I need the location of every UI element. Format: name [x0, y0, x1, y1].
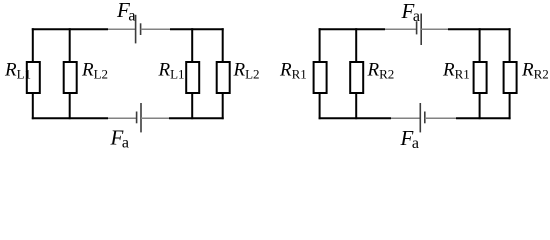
resistor RR2 (right edge of right circuit) — [504, 28, 517, 119]
wire: right circuit top-right horizontal segment — [448, 28, 511, 30]
wire: left circuit top-right horizontal segment — [170, 28, 224, 30]
resistor RR1 (left edge of right circuit) — [314, 28, 327, 119]
label Fa (top of right circuit) — [401, 0, 420, 25]
label RR1 (first) — [279, 60, 307, 82]
wire: right circuit top-left horizontal segment — [319, 28, 385, 30]
wire: left circuit top-left horizontal segment — [32, 28, 108, 30]
svg-text:RL2: RL2 — [233, 60, 260, 82]
svg-text:RR2: RR2 — [521, 60, 549, 82]
label RL1 (third) — [158, 60, 185, 82]
label RL2 (fourth) — [233, 60, 260, 82]
resistor RL1 (third branch of left circuit) — [186, 28, 199, 119]
wire: right circuit bottom-right horizontal segment — [456, 117, 511, 119]
label Fa (top of left circuit) — [116, 0, 135, 24]
label RL2 (second) — [81, 60, 108, 82]
resistor RL2 (right edge of left circuit) — [217, 28, 230, 119]
svg-text:RL1: RL1 — [158, 60, 185, 82]
svg-text:RR2: RR2 — [367, 60, 395, 82]
battery Fa (bottom of left circuit) — [108, 103, 169, 132]
svg-text:Fa: Fa — [116, 0, 135, 24]
resistor RR1 (third branch of right circuit) — [474, 28, 487, 119]
svg-text:RR1: RR1 — [442, 60, 470, 82]
label RR2 (second) — [367, 60, 395, 82]
svg-text:RL2: RL2 — [81, 60, 108, 82]
label RL1 (first) — [4, 60, 31, 82]
label RR2 (fourth) — [521, 60, 549, 82]
svg-text:Fa: Fa — [400, 126, 419, 152]
wire: left circuit bottom-left horizontal segment — [32, 117, 108, 119]
svg-text:RR1: RR1 — [279, 60, 307, 82]
wire: right circuit bottom-left horizontal segment — [319, 117, 391, 119]
resistor RL2 (second branch of left circuit) — [64, 28, 77, 119]
label Fa (bottom of left circuit) — [110, 126, 129, 152]
resistor RL1 (left edge of left circuit) — [27, 28, 40, 119]
resistor RR2 (second branch of right circuit) — [350, 28, 363, 119]
label RR1 (third) — [442, 60, 470, 82]
svg-text:Fa: Fa — [110, 126, 129, 152]
label Fa (bottom of right circuit) — [400, 126, 419, 152]
battery Fa (top of right circuit) — [385, 14, 448, 46]
svg-text:Fa: Fa — [401, 0, 420, 25]
battery Fa (top of left circuit) — [108, 15, 170, 44]
battery Fa (bottom of right circuit) — [391, 103, 456, 132]
wire: left circuit bottom-right horizontal segment — [169, 117, 224, 119]
